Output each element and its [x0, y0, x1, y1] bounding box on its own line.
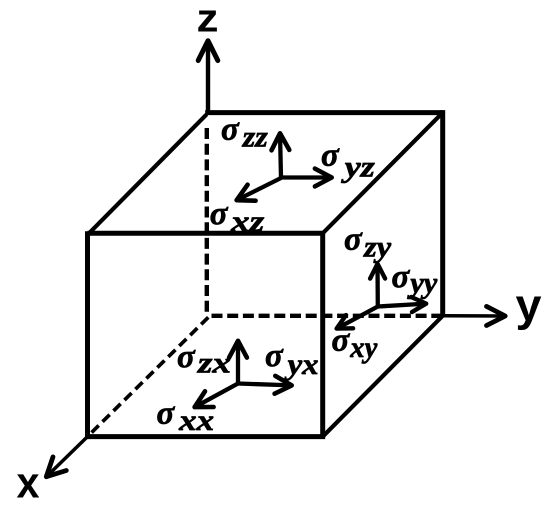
- svg-text:σyy: σyy: [392, 259, 438, 300]
- y axis arrow: [443, 306, 506, 325]
- sigma_xx arrow (bottom face, down-left): [194, 384, 238, 408]
- svg-text:x: x: [17, 459, 40, 508]
- cube: front face bottom edge E-F: [85, 434, 325, 439]
- cube: front face top edge C-D: [88, 231, 323, 236]
- svg-text:y: y: [516, 280, 542, 331]
- cube: right face bottom slant edge F-G: [323, 314, 445, 436]
- svg-text:σzx: σzx: [177, 339, 231, 380]
- svg-text:σyx: σyx: [265, 338, 319, 381]
- z axis arrow: [198, 41, 218, 113]
- cube: front face left edge C-E: [85, 231, 90, 436]
- sigma_yx arrow (bottom face, right): [238, 376, 292, 394]
- svg-text:z: z: [197, 0, 219, 41]
- cube: front face right edge D-F: [320, 231, 325, 436]
- cube: right face back vertical edge B-G: [440, 110, 445, 316]
- cube: top face back edge A-B: [205, 110, 443, 115]
- sigma_zy arrow (right face, up): [370, 264, 385, 308]
- sigma_xy arrow (right face, down-left): [336, 307, 378, 329]
- svg-text:σzy: σzy: [344, 222, 392, 264]
- x axis arrow: [46, 437, 87, 477]
- sigma_yy arrow (right face, right): [378, 297, 427, 312]
- sigma_yz arrow (top face, right): [281, 169, 332, 187]
- sigma_zx arrow (bottom face, up): [229, 341, 247, 384]
- sigma_zz arrow (top face, up): [272, 133, 290, 178]
- hidden depth edge E-H (dashed): [91, 317, 208, 433]
- hidden vertical edge A-H (dashed): [205, 128, 209, 312]
- cube: top face right slant edge D-B: [323, 113, 443, 234]
- svg-text:σzz: σzz: [221, 112, 268, 154]
- cube: top face left slant edge C-A: [87, 114, 207, 235]
- sigma_xz arrow (top face, down-left): [236, 178, 281, 201]
- hidden bottom edge H-G (dashed): [212, 314, 443, 318]
